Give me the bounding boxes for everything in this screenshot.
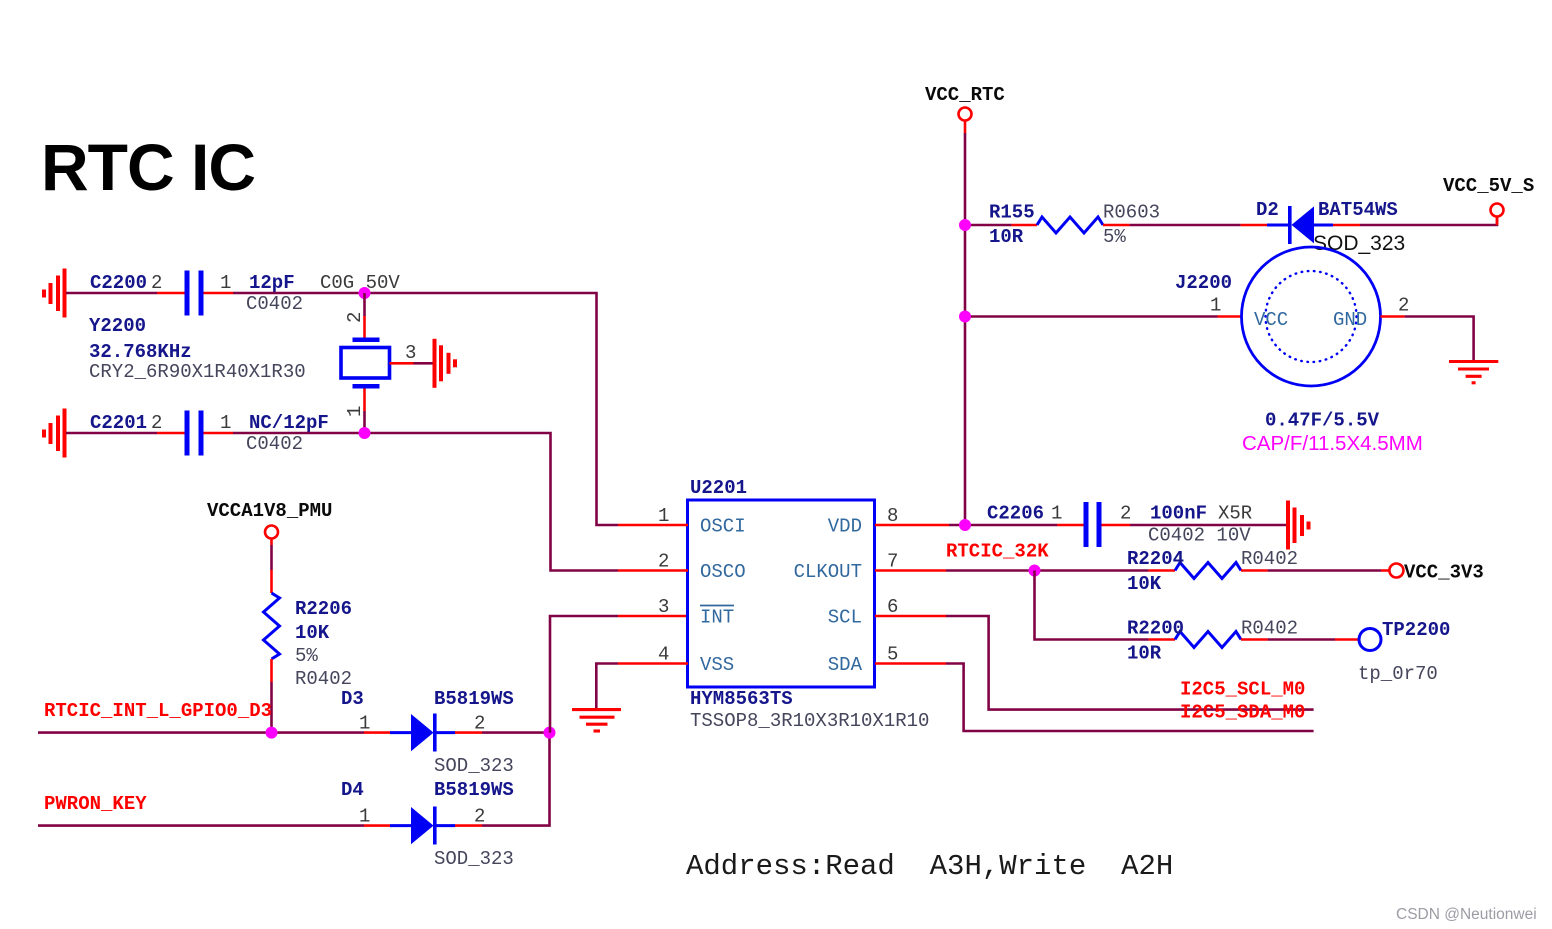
- svg-text:C2200: C2200: [90, 272, 147, 294]
- pin stub C2206 pin1: [1057, 524, 1084, 527]
- svg-text:VDD: VDD: [828, 516, 862, 538]
- svg-text:tp_0r70: tp_0r70: [1358, 663, 1438, 685]
- ground (sideways) at C2206: [1288, 501, 1309, 550]
- wire C2201 left: [66, 432, 157, 435]
- svg-text:I2C5_SDA_M0: I2C5_SDA_M0: [1180, 702, 1305, 724]
- svg-text:3: 3: [405, 342, 416, 364]
- svg-text:2: 2: [474, 713, 485, 735]
- svg-text:C0402 10V: C0402 10V: [1148, 525, 1251, 547]
- svg-text:2: 2: [1120, 503, 1131, 525]
- wire SCL net: [946, 616, 1314, 710]
- wire C2201 to OSCO: [233, 433, 618, 571]
- pin stub R2204 pin1: [1149, 569, 1175, 572]
- pin stub crystal pin3: [390, 362, 414, 365]
- svg-text:CLKOUT: CLKOUT: [794, 561, 862, 583]
- svg-text:6: 6: [887, 596, 898, 618]
- svg-text:C0402: C0402: [246, 433, 303, 455]
- svg-text:TP2200: TP2200: [1382, 619, 1450, 641]
- svg-text:1: 1: [359, 806, 370, 828]
- svg-text:1: 1: [658, 505, 669, 527]
- pin stub D4 pin1: [364, 824, 390, 827]
- op-amp U2201 body: [688, 500, 875, 687]
- svg-text:C0402: C0402: [246, 293, 303, 315]
- pin stub D3 pin1: [364, 731, 390, 734]
- svg-text:2: 2: [151, 272, 162, 294]
- svg-text:1: 1: [220, 412, 231, 434]
- diode D3: [390, 731, 412, 734]
- svg-text:D3: D3: [341, 688, 364, 710]
- pin stub J2200 pin1: [1218, 315, 1243, 318]
- pin stub C2200 pin1: [204, 292, 234, 295]
- svg-text:RTCIC_32K: RTCIC_32K: [946, 541, 1049, 563]
- capacitor C2206: [1084, 502, 1089, 547]
- wire crystal pin3 to ground: [414, 362, 434, 365]
- wire R2204 to VCC_3V3: [1268, 569, 1381, 572]
- svg-text:2: 2: [151, 412, 162, 434]
- wire crystal pin1: [363, 389, 366, 412]
- svg-text:NC/12pF: NC/12pF: [249, 412, 329, 434]
- node junction CLKOUT: [1029, 565, 1041, 577]
- svg-text:1: 1: [344, 406, 366, 417]
- svg-text:2: 2: [1398, 295, 1409, 317]
- svg-text:U2201: U2201: [690, 477, 747, 499]
- svg-text:D4: D4: [341, 779, 364, 801]
- svg-text:R0402: R0402: [1241, 548, 1298, 570]
- node junction at C2201/crystal pin1: [359, 427, 371, 439]
- ground at VSS: [572, 710, 621, 731]
- svg-text:SOD_323: SOD_323: [434, 848, 514, 870]
- wire J2200 pin2 to ground: [1405, 317, 1474, 361]
- svg-text:PWRON_KEY: PWRON_KEY: [44, 793, 147, 815]
- ground (sideways) at C2201: [44, 409, 65, 458]
- wire D3 to junction: [482, 731, 550, 734]
- node junction VDD: [959, 519, 971, 531]
- svg-text:12pF: 12pF: [249, 272, 295, 294]
- svg-text:R0402: R0402: [1241, 618, 1298, 640]
- pin stub D4 pin2: [455, 824, 482, 827]
- svg-text:B5819WS: B5819WS: [434, 688, 514, 710]
- svg-text:CRY2_6R90X1R40X1R30: CRY2_6R90X1R40X1R30: [89, 361, 306, 383]
- diode D4: [390, 824, 412, 827]
- wire RTCIC_INT row: [38, 731, 364, 734]
- power flag VCC_3V3: [1389, 564, 1403, 578]
- svg-text:7: 7: [887, 551, 898, 573]
- wire INT net: [550, 616, 618, 733]
- pin stub J2200 pin2: [1381, 315, 1405, 318]
- testpoint TP2200: [1359, 629, 1381, 651]
- svg-text:VCC_3V3: VCC_3V3: [1404, 562, 1484, 584]
- pin stub C2200 pin2: [157, 292, 185, 295]
- svg-text:5%: 5%: [295, 645, 318, 667]
- svg-text:8: 8: [887, 505, 898, 527]
- svg-text:CAP/F/11.5X4.5MM: CAP/F/11.5X4.5MM: [1242, 432, 1423, 455]
- svg-text:R2204: R2204: [1127, 548, 1184, 570]
- pin stub U2201 pin8: [875, 524, 949, 527]
- svg-text:2: 2: [658, 551, 669, 573]
- resistor R2200: [1175, 632, 1241, 648]
- node junction R2206/D3: [266, 727, 278, 739]
- pin stub R2200 pin2: [1241, 638, 1268, 641]
- svg-text:1: 1: [1051, 503, 1062, 525]
- wire PWRON_KEY row: [38, 824, 364, 827]
- svg-text:5%: 5%: [1103, 226, 1126, 248]
- svg-text:Y2200: Y2200: [89, 315, 146, 337]
- svg-text:VSS: VSS: [700, 654, 734, 676]
- wire J2200 pin1: [965, 315, 1218, 318]
- svg-text:32.768KHz: 32.768KHz: [89, 341, 192, 363]
- ground (sideways) at crystal pin3: [435, 339, 456, 388]
- wire R2200 to TP2200: [1268, 638, 1335, 641]
- svg-text:C2201: C2201: [90, 412, 147, 434]
- wire C2200 left: [66, 292, 157, 295]
- wire SDA net: [946, 664, 1314, 732]
- capacitor C2200: [185, 271, 190, 316]
- svg-text:SOD_323: SOD_323: [434, 755, 514, 777]
- svg-text:OSCI: OSCI: [700, 516, 746, 538]
- pin stub U2201 pin2: [618, 569, 688, 572]
- svg-text:VCC_RTC: VCC_RTC: [925, 84, 1005, 106]
- ground at J2200: [1449, 362, 1498, 383]
- svg-text:R2206: R2206: [295, 598, 352, 620]
- svg-text:BAT54WS: BAT54WS: [1318, 199, 1398, 221]
- resistor R155: [1037, 217, 1103, 233]
- diode D2: [1267, 224, 1290, 227]
- resistor R2206: [264, 593, 280, 659]
- svg-text:R155: R155: [989, 202, 1035, 224]
- svg-text:RTCIC_INT_L_GPIO0_D3: RTCIC_INT_L_GPIO0_D3: [44, 700, 272, 722]
- wire D4 to junction riser: [482, 733, 550, 826]
- pin stub D3 pin2: [455, 731, 482, 734]
- svg-text:10R: 10R: [989, 226, 1024, 248]
- pin stub U2201 pin7: [875, 569, 946, 572]
- svg-text:VCC: VCC: [1254, 309, 1288, 331]
- wire CLKOUT to R2200: [1035, 571, 1149, 640]
- ground (sideways) at C2200: [44, 269, 65, 318]
- svg-text:J2200: J2200: [1175, 272, 1232, 294]
- svg-text:10K: 10K: [295, 622, 330, 644]
- svg-text:GND: GND: [1333, 309, 1367, 331]
- svg-text:VCCA1V8_PMU: VCCA1V8_PMU: [207, 500, 332, 522]
- svg-text:B5819WS: B5819WS: [434, 779, 514, 801]
- wire VDD to C2206: [949, 524, 1057, 527]
- svg-text:10R: 10R: [1127, 643, 1162, 665]
- svg-text:TSSOP8_3R10X3R10X1R10: TSSOP8_3R10X3R10X1R10: [690, 710, 929, 732]
- pin stub D2 anode: [1241, 224, 1267, 227]
- wire VSS to ground: [596, 664, 618, 709]
- svg-text:5: 5: [887, 644, 898, 666]
- svg-text:3: 3: [658, 596, 669, 618]
- svg-text:I2C5_SCL_M0: I2C5_SCL_M0: [1180, 679, 1305, 701]
- capacitor C2201: [185, 411, 190, 456]
- svg-text:SOD_323: SOD_323: [1313, 232, 1405, 255]
- svg-text:X5R: X5R: [1218, 503, 1252, 525]
- wire crystal pin2: [363, 293, 366, 316]
- node junction D3/D4/INT: [544, 727, 556, 739]
- svg-text:INT: INT: [700, 607, 734, 629]
- svg-text:2: 2: [474, 806, 485, 828]
- pin stub C2206 pin2: [1102, 524, 1131, 527]
- wire CLKOUT row: [946, 569, 1149, 572]
- svg-text:C2206: C2206: [987, 503, 1044, 525]
- pin stub R2204 pin2: [1241, 569, 1268, 572]
- wire VCC_RTC vertical: [964, 121, 967, 134]
- wire VCCA1V8_PMU to R2206: [270, 539, 273, 546]
- svg-text:1: 1: [359, 713, 370, 735]
- svg-text:1: 1: [1210, 295, 1221, 317]
- wire C2200 to OSCI: [233, 293, 618, 525]
- pin stub D2 cathode: [1333, 224, 1360, 227]
- svg-text:D2: D2: [1256, 199, 1279, 221]
- svg-text:10K: 10K: [1127, 573, 1162, 595]
- svg-text:R2200: R2200: [1127, 618, 1184, 640]
- pin stub U2201 pin4: [618, 662, 688, 665]
- svg-text:Address:Read A3H,Write A2H: Address:Read A3H,Write A2H: [686, 850, 1173, 883]
- svg-text:SDA: SDA: [828, 654, 863, 676]
- svg-text:100nF: 100nF: [1150, 503, 1207, 525]
- wire R155 row: [965, 224, 1012, 227]
- resistor R2204: [1175, 563, 1241, 579]
- pin stub U2201 pin1: [618, 524, 688, 527]
- pin stub R2200 pin1: [1149, 638, 1175, 641]
- pin stub U2201 pin6: [875, 615, 946, 618]
- svg-text:0.47F/5.5V: 0.47F/5.5V: [1265, 410, 1380, 432]
- svg-text:2: 2: [344, 312, 366, 323]
- node junction VCC_RTC/R155: [959, 219, 971, 231]
- wire C2206 to ground: [1130, 524, 1286, 527]
- svg-text:SCL: SCL: [828, 607, 862, 629]
- svg-text:4: 4: [658, 644, 669, 666]
- svg-text:CSDN @Neutionwei: CSDN @Neutionwei: [1396, 906, 1537, 923]
- pin stub C2201 pin2: [157, 432, 185, 435]
- supercap J2200 body: [1242, 247, 1381, 386]
- pin stub C2201 pin1: [204, 432, 234, 435]
- svg-text:1: 1: [220, 272, 231, 294]
- svg-text:RTC IC: RTC IC: [41, 130, 255, 204]
- svg-text:VCC_5V_S: VCC_5V_S: [1443, 175, 1534, 197]
- pin stub U2201 pin3: [618, 615, 688, 618]
- svg-text:HYM8563TS: HYM8563TS: [690, 688, 793, 710]
- svg-text:R0603: R0603: [1103, 202, 1160, 224]
- svg-text:R0402: R0402: [295, 668, 352, 690]
- crystal Y2200: [353, 338, 380, 343]
- node junction VCC_RTC/J2200: [959, 311, 971, 323]
- svg-text:OSCO: OSCO: [700, 561, 746, 583]
- wire D2 to VCC_5V_S: [1360, 217, 1497, 226]
- node junction at C2200/crystal pin2: [359, 287, 371, 299]
- pin stub U2201 pin5: [875, 662, 946, 665]
